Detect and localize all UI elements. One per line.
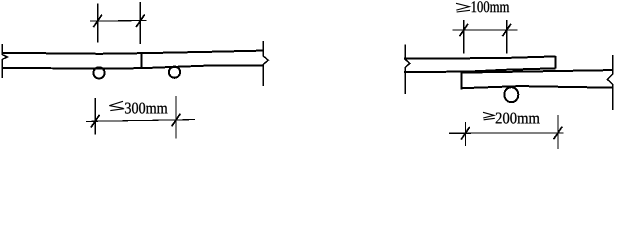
greater-equal symbol bbox=[483, 112, 495, 120]
bottom dimension line bbox=[449, 132, 563, 135]
digits 100mm bbox=[472, 1, 510, 12]
bottom dimension left extension line bbox=[94, 98, 96, 135]
bottom dimension label "≥200mm" bbox=[483, 112, 540, 123]
bottom dimension label "≤300mm" bbox=[109, 101, 167, 113]
bottom dimension right extension line bbox=[557, 115, 559, 149]
top dimension left tick bbox=[93, 15, 102, 28]
lower bar bottom edge bbox=[462, 86, 613, 88]
lower bar right break symbol bbox=[607, 55, 612, 110]
top dimension left extension line bbox=[463, 20, 465, 54]
weld circle right bbox=[169, 67, 180, 78]
bottom dimension left tick bbox=[461, 127, 470, 140]
bottom dimension right extension line bbox=[175, 96, 177, 139]
bar top edge bbox=[2, 51, 264, 54]
weld circle left bbox=[93, 67, 104, 78]
top dimension left tick bbox=[460, 24, 469, 37]
butt joint line bbox=[140, 52, 142, 68]
lower bar left end bbox=[461, 72, 463, 90]
upper bar left break symbol bbox=[405, 45, 410, 95]
lower bar top edge bbox=[462, 70, 613, 73]
bottom dimension line bbox=[86, 120, 195, 122]
bar bottom edge bbox=[2, 65, 264, 68]
top dimension right tick bbox=[502, 24, 511, 37]
upper bar right end bbox=[554, 56, 556, 68]
top dimension line bbox=[453, 29, 518, 31]
bottom dimension right tick bbox=[554, 127, 563, 140]
digits 200mm bbox=[496, 113, 540, 124]
top dimension right extension line bbox=[506, 20, 508, 54]
upper bar bottom edge bbox=[404, 68, 555, 72]
upper bar top edge bbox=[404, 56, 555, 58]
top dimension line bbox=[90, 20, 147, 22]
top dimension left extension line bbox=[97, 4, 99, 43]
right diagram: lap-spliced bars elevation bbox=[404, 20, 613, 149]
digits 300mm bbox=[125, 103, 167, 114]
bottom dimension left tick bbox=[91, 115, 100, 128]
less-equal symbol bbox=[109, 101, 124, 110]
left diagram: butt-spliced bar elevation bbox=[2, 2, 269, 139]
top dimension label "≥100mm" bbox=[456, 1, 509, 12]
top dimension right extension line bbox=[139, 2, 141, 44]
greater-equal symbol bbox=[456, 3, 470, 12]
top dimension right tick bbox=[136, 14, 145, 27]
bottom dimension left extension line bbox=[464, 122, 466, 146]
left break symbol bbox=[2, 44, 7, 78]
bottom dimension right tick bbox=[172, 114, 181, 127]
right break symbol bbox=[263, 41, 268, 86]
binding circle bbox=[504, 87, 518, 102]
